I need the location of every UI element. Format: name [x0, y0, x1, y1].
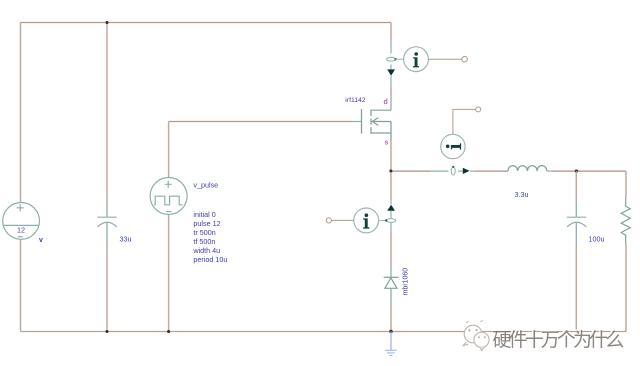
capacitor C1 33u: plates: [97, 217, 116, 227]
resistor R1: [621, 197, 630, 245]
pulse source V2: top lead: [168, 122, 170, 178]
probe AM3 terminal lead: [331, 219, 353, 221]
watermark text 硬件十万个为什么: [491, 328, 623, 351]
wire: right rail upper: [625, 171, 627, 197]
svg-text:100u: 100u: [589, 235, 605, 244]
wire: diode branch: [390, 172, 392, 200]
svg-text:硬件十万个为什么: 硬件十万个为什么: [493, 329, 624, 351]
probe AM1 meter circle: [404, 47, 429, 72]
pulse source V2: bottom lead: [168, 215, 170, 332]
wire: gate drive from V2 to Q1 gate: [169, 121, 352, 123]
probe AM2 loop: [451, 167, 455, 175]
svg-text:33u: 33u: [120, 235, 132, 244]
Q1 drain lead: [371, 109, 391, 111]
svg-text:tr 500n: tr 500n: [193, 228, 215, 237]
current probe AM2 (inductor current): [441, 107, 481, 175]
capacitor C1 33u: bottom lead: [106, 223, 108, 244]
probe AM2 terminal: [476, 107, 481, 112]
wire: diode to ground node: [390, 288, 392, 305]
ground: [385, 332, 397, 356]
capacitor C2 100u: top lead: [575, 171, 577, 203]
wire: left rail lower segment: [20, 239, 22, 331]
Q1 channel dashes: [370, 110, 372, 134]
svg-text:irf1142: irf1142: [345, 97, 365, 104]
MOSFET Q1 irf142: [362, 109, 392, 140]
svg-text:width 4u: width 4u: [192, 246, 220, 255]
probe AM1 link: [395, 58, 403, 60]
svg-text:period 10u: period 10u: [193, 255, 227, 264]
Q1 body arrow: [372, 121, 391, 123]
wire: source to output node: [390, 140, 392, 171]
probe AM2 link: [452, 134, 454, 158]
svg-text:tf 500n: tf 500n: [193, 237, 215, 246]
inductor L1 3.3u: [508, 166, 547, 171]
probe AM3 arrow (up): [387, 205, 395, 211]
Q1 source lead: [371, 132, 391, 134]
probe AM3 loop: [386, 219, 395, 223]
probe AM1 loop: [387, 57, 396, 61]
svg-text:v: v: [39, 237, 43, 244]
capacitor C1 33u: top lead: [106, 23, 108, 204]
svg-text:v_pulse: v_pulse: [193, 181, 218, 190]
probe AM2 meter circle: [441, 134, 465, 158]
probe AM3 link: [379, 219, 387, 221]
current probe AM3 (diode current): [326, 205, 395, 233]
capacitor C2 100u: plates: [567, 217, 586, 227]
wire: bottom bus: [21, 331, 627, 333]
svg-text:s: s: [385, 140, 389, 147]
probe AM1 terminal: [462, 56, 468, 62]
pulse source V2 body: [150, 178, 187, 215]
svg-text:mbr1060: mbr1060: [403, 268, 410, 296]
wire: switch node to inductor: [392, 170, 431, 172]
voltage source V1: [3, 203, 40, 240]
probe AM2 arrow (right): [463, 168, 470, 174]
svg-text:initial 0: initial 0: [193, 210, 215, 219]
wire: top bus from left rail to drain branch: [21, 22, 392, 24]
probe AM1 arrow (down): [387, 69, 395, 75]
svg-text:d: d: [384, 99, 388, 106]
svg-text:3.3u: 3.3u: [515, 190, 529, 199]
junction: bottom bus / V2: [167, 330, 170, 333]
junction: output node / C2: [575, 170, 578, 173]
probe AM3 meter circle: [354, 208, 379, 233]
diode D1 mbr1060: [384, 277, 399, 288]
wire: left rail upper segment: [20, 23, 22, 203]
capacitor C2 100u: bottom lead: [575, 223, 577, 244]
Q1 gate bar: [361, 109, 363, 134]
wire: inductor to output: [547, 170, 552, 172]
probe AM1 terminal lead: [428, 58, 461, 60]
junction: bottom bus / ground: [389, 330, 392, 333]
wire: right rail lower: [625, 245, 627, 332]
junction: bottom bus / C1: [106, 330, 109, 333]
junction: top bus / C1: [106, 21, 109, 24]
svg-text:12: 12: [17, 225, 25, 234]
watermark logo (chat bubbles): [463, 320, 489, 350]
probe AM3 terminal: [326, 218, 331, 223]
current probe AM1 (drain current): [387, 47, 468, 76]
Q1 source vertical: [390, 122, 392, 141]
svg-text:pulse 12: pulse 12: [193, 219, 220, 228]
wire: drain branch upper: [390, 23, 392, 41]
junction: output switch node: [389, 170, 392, 173]
probe AM2 stem: [453, 109, 476, 134]
